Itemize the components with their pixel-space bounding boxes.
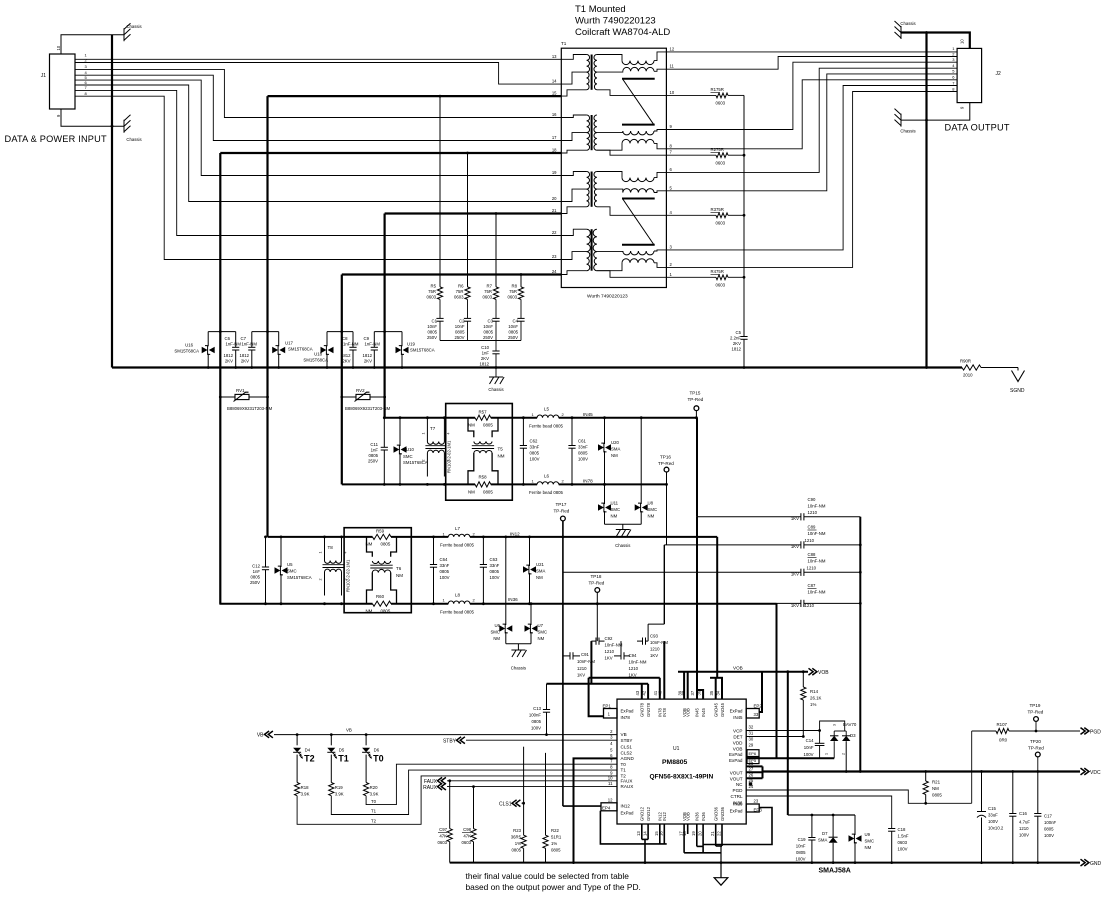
capacitor C61 [571, 418, 573, 446]
resistor R20 [365, 755, 367, 783]
svg-text:20: 20 [698, 831, 703, 836]
svg-text:PGD: PGD [733, 788, 744, 793]
svg-text:NC: NC [736, 782, 743, 787]
svg-text:1KV: 1KV [791, 603, 799, 608]
choke T7 [426, 418, 428, 442]
svg-text:51R1: 51R1 [551, 835, 562, 840]
svg-text:75R: 75R [428, 289, 436, 294]
wire J1 top stub [61, 35, 124, 54]
svg-text:GND45: GND45 [720, 702, 725, 717]
svg-text:1%: 1% [515, 841, 521, 846]
svg-text:C14: C14 [806, 738, 814, 743]
svg-text:T6: T6 [396, 566, 402, 571]
svg-text:SMC: SMC [538, 630, 548, 635]
capacitor C15 [981, 772, 983, 812]
svg-text:R19: R19 [335, 785, 343, 790]
svg-text:U21: U21 [536, 562, 544, 567]
wire STBY [466, 739, 617, 741]
svg-text:250V: 250V [368, 459, 378, 464]
svg-text:0805: 0805 [381, 542, 391, 547]
svg-text:R60: R60 [376, 594, 385, 599]
svg-text:0805: 0805 [483, 490, 493, 495]
wire VB rail [274, 734, 617, 736]
wire chassis vertical right [925, 33, 927, 368]
box NM group block1 [446, 404, 513, 501]
svg-text:ExPad: ExPad [730, 709, 743, 714]
svg-text:2010: 2010 [963, 373, 973, 378]
TVS U8 [640, 418, 642, 504]
capacitor C16 [1012, 772, 1014, 814]
svg-text:100V: 100V [440, 575, 450, 580]
svg-text:0805: 0805 [427, 330, 437, 335]
svg-text:1.5nF: 1.5nF [898, 834, 909, 839]
capacitor C1 [439, 299, 441, 318]
svg-text:0603: 0603 [482, 295, 492, 300]
svg-text:NM: NM [468, 423, 475, 428]
capacitor C90 [697, 516, 801, 518]
wire IN12 column [562, 521, 564, 806]
svg-text:T2: T2 [304, 754, 315, 764]
ferrite bead L8 [448, 601, 470, 604]
capacitor C5 [740, 336, 747, 338]
capacitor C88 [563, 571, 801, 573]
svg-text:1%: 1% [810, 702, 816, 707]
svg-text:0805: 0805 [250, 575, 260, 580]
svg-text:EP6: EP6 [749, 751, 757, 756]
svg-text:1812: 1812 [362, 353, 372, 358]
svg-text:their final value could be sel: their final value could be selected from… [466, 871, 630, 881]
svg-text:1KV: 1KV [791, 544, 799, 549]
transformer T1 section C choke windings [597, 172, 622, 178]
svg-text:GND36: GND36 [720, 806, 725, 821]
svg-text:19: 19 [552, 170, 557, 175]
svg-text:STBY: STBY [621, 738, 633, 743]
svg-text:T0: T0 [621, 762, 627, 767]
TVS U10 [399, 418, 401, 446]
TVS U7 [530, 604, 532, 625]
svg-text:1210: 1210 [650, 647, 660, 652]
svg-text:IN36: IN36 [733, 801, 743, 806]
svg-text:250V: 250V [508, 335, 518, 340]
capacitor C93 [642, 638, 644, 645]
svg-text:1210: 1210 [577, 666, 587, 671]
svg-text:T1: T1 [561, 41, 567, 46]
svg-text:U6: U6 [495, 623, 501, 628]
svg-text:Chassis: Chassis [511, 666, 526, 671]
svg-text:2: 2 [842, 753, 846, 755]
wire T1.8 to J2.6 [666, 80, 957, 149]
wire T1.6 to J2.4 [666, 68, 957, 172]
chassis (J2 top) [900, 26, 902, 39]
svg-text:T0: T0 [371, 799, 377, 804]
TVS U21 [529, 537, 531, 566]
svg-text:10nF: 10nF [796, 844, 806, 849]
svg-text:19: 19 [691, 831, 696, 836]
svg-text:0R0: 0R0 [999, 738, 1008, 743]
resistor R5 [437, 287, 442, 300]
svg-text:16: 16 [552, 112, 557, 117]
capacitor C94 [620, 652, 622, 659]
wire GND12 stubs [641, 824, 643, 839]
svg-text:33nF: 33nF [440, 563, 450, 568]
resistor R57 [475, 415, 491, 420]
svg-text:C8: C8 [342, 336, 348, 341]
svg-text:4.7uF: 4.7uF [1019, 820, 1030, 825]
svg-text:based on the output power and: based on the output power and Type of th… [466, 882, 641, 892]
svg-text:11: 11 [670, 64, 675, 69]
svg-text:2KV: 2KV [342, 359, 350, 364]
svg-text:U19: U19 [407, 342, 415, 347]
wire IN78 to C89 row [666, 484, 668, 545]
diode D7 [832, 815, 834, 837]
wire IN45 pin stubs [696, 517, 698, 699]
svg-text:0603: 0603 [898, 840, 908, 845]
wire J1 bottom stub [61, 109, 124, 126]
svg-text:R275R: R275R [711, 147, 724, 152]
resistor R60 [373, 601, 392, 606]
TVS U11 [604, 484, 606, 504]
resistor R475R [666, 276, 716, 278]
svg-text:0805: 0805 [511, 848, 521, 853]
IC U1 pin EP2 [746, 709, 759, 719]
transformer T1 section D secondary winding [593, 229, 597, 251]
resistor R275R [666, 154, 716, 156]
svg-text:GND12: GND12 [640, 806, 645, 821]
svg-text:100V: 100V [578, 457, 588, 462]
svg-text:1210: 1210 [605, 649, 615, 654]
choke T6 [367, 537, 373, 557]
resistor R22 [545, 753, 547, 835]
svg-text:30: 30 [749, 736, 754, 741]
testpoint TP15 [694, 406, 699, 411]
svg-text:Ferrite bead 0805: Ferrite bead 0805 [529, 490, 564, 495]
transformer T1 section A secondary winding [594, 55, 597, 73]
svg-text:RAUX: RAUX [621, 784, 634, 789]
svg-text:R175R: R175R [711, 87, 724, 92]
svg-text:SM15T68CA: SM15T68CA [287, 575, 312, 580]
transformer T1 section C secondary winding [594, 172, 597, 190]
IC U1 PM8805 [617, 699, 746, 824]
wire BAV70 anode2 to VDC [845, 741, 847, 771]
wire GND78 pin stubs [641, 684, 643, 699]
svg-text:GND12: GND12 [646, 806, 651, 821]
svg-text:31: 31 [749, 731, 754, 736]
svg-text:SM15T68CA: SM15T68CA [410, 348, 435, 353]
capacitor C17 [1037, 772, 1039, 814]
svg-text:NM: NM [536, 575, 543, 580]
svg-text:2KV: 2KV [225, 359, 233, 364]
wire T1 diagonal pair2 [623, 199, 654, 244]
svg-text:1: 1 [825, 753, 829, 755]
svg-text:0603: 0603 [507, 295, 517, 300]
svg-text:DATA OUTPUT: DATA OUTPUT [945, 123, 1010, 133]
svg-text:3: 3 [833, 724, 837, 726]
svg-text:ExPad: ExPad [730, 809, 743, 814]
svg-text:B88069X9231T203-NM: B88069X9231T203-NM [345, 406, 391, 411]
capacitor C3 [495, 299, 497, 318]
svg-text:TP19: TP19 [1030, 703, 1041, 708]
wire T1.2 to J2.8 [666, 92, 957, 268]
svg-text:10nF: 10nF [508, 324, 518, 329]
svg-text:L6: L6 [544, 474, 550, 479]
svg-text:STBY: STBY [443, 739, 457, 745]
svg-text:IN78: IN78 [583, 479, 593, 484]
svg-text:NM: NM [498, 454, 505, 459]
svg-text:U5: U5 [287, 562, 293, 567]
net label PGD arrow [1081, 728, 1086, 735]
svg-text:NM: NM [611, 514, 618, 519]
svg-text:TP-Red: TP-Red [554, 509, 570, 514]
svg-text:BAV70: BAV70 [843, 722, 857, 727]
svg-text:SGND: SGND [1010, 388, 1025, 394]
capacitor C18 [888, 828, 895, 830]
svg-text:0805: 0805 [490, 569, 500, 574]
svg-text:14: 14 [552, 79, 557, 84]
capacitor C10 [495, 341, 497, 352]
svg-text:U1: U1 [673, 746, 680, 752]
svg-text:NM: NM [493, 636, 500, 641]
svg-text:2: 2 [319, 579, 323, 581]
choke T5 [468, 418, 474, 438]
wire AGND path [574, 758, 618, 862]
testpoint TP18 [595, 588, 600, 593]
svg-text:EP1: EP1 [603, 704, 612, 709]
transformer T1 section A choke windings [597, 55, 622, 61]
svg-text:U7: U7 [538, 623, 544, 628]
svg-text:IN78: IN78 [662, 707, 667, 717]
capacitor C89 [664, 544, 801, 546]
wire GND45 bracket [710, 677, 723, 679]
svg-text:100V: 100V [898, 847, 908, 852]
svg-text:VOB: VOB [818, 670, 829, 676]
svg-text:1nF: 1nF [253, 569, 261, 574]
svg-text:TP-Red: TP-Red [589, 581, 605, 586]
svg-text:C3: C3 [488, 319, 494, 324]
chassis (U6/U7) [517, 644, 519, 650]
wire riser pair24 [341, 275, 343, 485]
resistor R7 [493, 287, 498, 300]
svg-text:0603: 0603 [716, 282, 726, 287]
wire termination riser x744 [743, 95, 745, 336]
svg-text:10nF: 10nF [455, 324, 465, 329]
svg-text:100V: 100V [988, 819, 998, 824]
chassis (U11/U8) [622, 524, 624, 529]
svg-text:IN45: IN45 [701, 707, 706, 717]
svg-text:0603: 0603 [454, 295, 464, 300]
svg-text:IN12: IN12 [621, 804, 631, 809]
svg-text:IN45: IN45 [695, 707, 700, 717]
wire net pair21 (thick) to T1.21 [385, 212, 562, 214]
svg-text:1nF: 1nF [482, 351, 490, 356]
svg-text:1KV: 1KV [650, 653, 658, 658]
wire rail IN78 lower [342, 483, 475, 485]
svg-text:TP-Red: TP-Red [1028, 710, 1044, 715]
svg-text:SMC: SMC [287, 569, 297, 574]
net label VOB arrow [809, 668, 814, 675]
svg-text:D4: D4 [305, 748, 311, 753]
svg-text:C12: C12 [252, 564, 260, 569]
svg-text:U18: U18 [314, 352, 322, 357]
wire VOB bottom stubs [683, 824, 685, 853]
svg-text:Chassis: Chassis [900, 21, 915, 26]
svg-text:22: 22 [552, 230, 557, 235]
wire J2 bottom stub [901, 103, 970, 121]
svg-text:R21: R21 [932, 780, 941, 785]
LED D4 [296, 735, 298, 746]
svg-text:C5: C5 [736, 330, 742, 335]
wire J1.2 to T1.14 [75, 63, 561, 85]
svg-text:R59: R59 [376, 529, 385, 534]
varistor RV1 [220, 396, 267, 398]
svg-text:0805: 0805 [1044, 827, 1054, 832]
resistor R6 [465, 287, 470, 300]
wire VOB line [678, 671, 808, 673]
svg-text:10nF: 10nF [483, 324, 493, 329]
svg-text:10: 10 [670, 90, 675, 95]
svg-text:3.9K: 3.9K [301, 792, 310, 797]
wire J1.4 to T1.17 [75, 75, 561, 140]
svg-text:0805: 0805 [796, 850, 806, 855]
svg-text:1KV: 1KV [791, 516, 799, 521]
svg-text:RV1: RV1 [236, 388, 245, 393]
wire bus GND78 upper [589, 677, 660, 679]
svg-text:Chassis: Chassis [488, 387, 503, 392]
svg-text:T1 Mounted: T1 Mounted [575, 4, 626, 15]
svg-text:100V: 100V [1019, 833, 1029, 838]
svg-text:R23: R23 [513, 828, 521, 833]
svg-text:1812: 1812 [341, 353, 351, 358]
chassis (under C10) [495, 368, 497, 378]
wire C1-C4 bottom bar [440, 340, 521, 342]
capacitor C62 [522, 418, 524, 446]
svg-text:100V: 100V [803, 752, 813, 757]
svg-text:U8: U8 [648, 501, 654, 506]
ferrite bead L6 [537, 482, 559, 485]
svg-text:0603: 0603 [437, 840, 447, 845]
svg-text:21: 21 [552, 208, 557, 213]
svg-text:SMA: SMA [536, 569, 545, 574]
capacitor C14 [819, 731, 821, 744]
transformer T1 section D primary winding [561, 229, 586, 235]
svg-text:1: 1 [421, 433, 425, 435]
svg-text:T7: T7 [430, 426, 436, 431]
svg-text:0805: 0805 [368, 453, 378, 458]
choke T8 [324, 537, 326, 561]
svg-text:32: 32 [749, 725, 754, 730]
wire R8 riser [520, 275, 522, 287]
TVS U16 [208, 331, 236, 333]
svg-text:C2: C2 [459, 319, 465, 324]
wire R5 riser [439, 96, 441, 287]
svg-text:Chassis: Chassis [126, 24, 141, 29]
svg-text:Chassis: Chassis [900, 129, 915, 134]
svg-text:18: 18 [552, 148, 557, 153]
svg-text:T5: T5 [498, 447, 504, 452]
svg-text:R6: R6 [458, 284, 464, 289]
svg-text:2KV: 2KV [364, 359, 372, 364]
resistor R21 [925, 772, 927, 782]
resistor R8 [518, 287, 523, 300]
svg-text:T1: T1 [371, 809, 377, 814]
ferrite bead L7 [448, 534, 470, 537]
svg-text:R107: R107 [997, 722, 1008, 727]
diode D3 BAV70 [820, 721, 845, 731]
wire CLS1 [522, 802, 524, 804]
svg-text:TP-Red: TP-Red [688, 397, 704, 402]
svg-text:SM15T68CA: SM15T68CA [174, 349, 199, 354]
svg-text:250V: 250V [250, 580, 260, 585]
svg-text:C10: C10 [481, 345, 489, 350]
svg-text:C97: C97 [439, 827, 447, 832]
svg-text:T2: T2 [371, 819, 377, 824]
svg-text:VDD: VDD [733, 740, 743, 745]
wire VOB column [859, 517, 861, 772]
wire EP1 bracket [589, 678, 604, 716]
svg-text:L7: L7 [455, 526, 461, 531]
svg-text:10nF-NM: 10nF-NM [808, 531, 826, 536]
transformer T1 section B bar [622, 124, 655, 126]
svg-text:CTRL: CTRL [731, 794, 743, 799]
svg-text:Wurth 7490220123: Wurth 7490220123 [575, 16, 656, 27]
svg-text:SMC: SMC [611, 507, 621, 512]
svg-text:VDC: VDC [1090, 770, 1101, 776]
svg-text:Chassis: Chassis [615, 543, 630, 548]
svg-text:VOB: VOB [733, 746, 743, 751]
svg-text:TP-Red: TP-Red [1028, 746, 1044, 751]
svg-text:24: 24 [552, 269, 557, 274]
svg-text:U9: U9 [865, 832, 871, 837]
svg-text:IN36: IN36 [701, 811, 706, 821]
svg-text:SM15T68CA: SM15T68CA [288, 347, 313, 352]
svg-text:Coilcraft WA8704-ALD: Coilcraft WA8704-ALD [575, 27, 670, 38]
svg-text:1%: 1% [551, 841, 557, 846]
svg-text:U10: U10 [406, 447, 414, 452]
svg-text:0603: 0603 [426, 295, 436, 300]
svg-text:GND: GND [1090, 861, 1102, 867]
capacitor C91 [563, 655, 570, 657]
transformer T1 section B secondary winding [594, 115, 597, 133]
svg-text:C17: C17 [1044, 814, 1052, 819]
chassis (J2 bottom) [900, 114, 902, 127]
svg-text:TP20: TP20 [1030, 739, 1041, 744]
svg-text:1210: 1210 [808, 510, 818, 515]
wire T1.5 to J2.5 [666, 74, 957, 191]
svg-text:3.9K: 3.9K [335, 792, 344, 797]
svg-text:11: 11 [608, 781, 613, 786]
wire VOUT bracket [746, 765, 762, 767]
ground (earth, below U1) [714, 878, 728, 886]
svg-text:NM: NM [865, 845, 872, 850]
TVS U5 [280, 537, 282, 567]
svg-text:100nF: 100nF [1044, 820, 1057, 825]
svg-text:TP16: TP16 [660, 455, 671, 460]
wire T1 diagonal pair1 [623, 80, 654, 125]
wire EP3 bracket [703, 808, 772, 845]
svg-text:0603: 0603 [461, 840, 471, 845]
svg-text:1210: 1210 [1019, 826, 1029, 831]
svg-text:1KV: 1KV [577, 673, 585, 678]
wire IN12 to EP4 [563, 805, 601, 807]
svg-text:T8: T8 [328, 545, 334, 550]
svg-text:FAUX: FAUX [621, 778, 633, 783]
svg-text:1nF-NM: 1nF-NM [241, 342, 257, 347]
svg-text:ExPad: ExPad [729, 752, 743, 757]
resistor R90R [962, 365, 981, 370]
svg-text:R20: R20 [370, 785, 378, 790]
svg-text:1210: 1210 [805, 538, 815, 543]
svg-text:R57: R57 [479, 410, 488, 415]
svg-text:250V: 250V [427, 335, 437, 340]
